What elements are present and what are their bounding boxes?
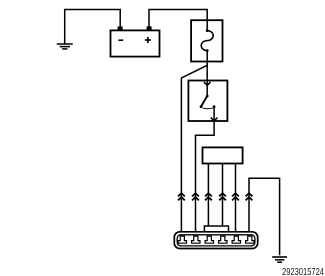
svg-text:2923015724: 2923015724 bbox=[282, 266, 324, 276]
